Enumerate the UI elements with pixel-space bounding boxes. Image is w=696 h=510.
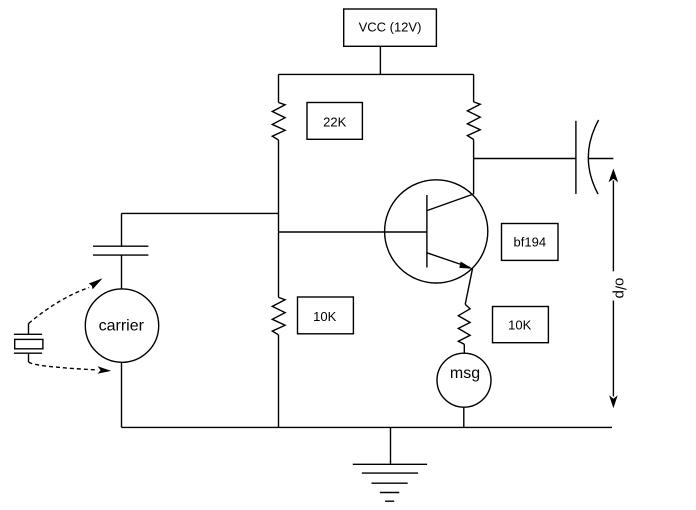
label box 10K (emitter) — [493, 307, 549, 343]
wire msg to ground rail — [463, 407, 465, 427]
wire collector vertical to transistor — [473, 140, 475, 195]
svg-text:10K: 10K — [508, 318, 531, 333]
svg-text:o/p: o/p — [612, 278, 629, 299]
capacitor carrier coupling top plate — [93, 245, 148, 247]
resistor 22K zigzag — [272, 103, 285, 141]
transistor Q1 emitter lead with arrow — [427, 253, 473, 269]
wire base connection — [279, 231, 427, 233]
wire output stub after capacitor — [588, 158, 613, 160]
resistor 10K (emitter) zigzag — [458, 304, 470, 344]
crystal bottom plate — [14, 352, 42, 354]
wire right branch top lead — [473, 74, 475, 102]
label box 10K (left) — [298, 297, 354, 334]
wire carrier to ground rail — [121, 362, 123, 427]
label box 22K — [307, 103, 362, 140]
dashed pointer lower (crystal to carrier) — [29, 362, 112, 374]
transistor Q1 circle — [385, 180, 488, 283]
svg-text:22K: 22K — [323, 115, 346, 130]
resistor collector (right top) zigzag — [467, 102, 480, 140]
wire collector output horizontal — [474, 158, 576, 160]
svg-text:msg: msg — [450, 365, 480, 382]
transistor Q1 base bar — [426, 195, 428, 268]
wire bottom ground rail — [122, 426, 613, 428]
capacitor output coupling straight plate — [575, 121, 577, 194]
transistor Q1 collector lead — [427, 194, 474, 211]
svg-text:VCC (12V): VCC (12V) — [359, 20, 422, 35]
capacitor carrier coupling bottom plate — [93, 254, 148, 256]
power VCC (12V) supply box — [344, 9, 437, 46]
wire emitter to resistor — [465, 269, 472, 305]
source carrier circle — [85, 289, 158, 362]
resistor 10K (lower left) zigzag — [272, 297, 285, 335]
crystal bottom lead — [28, 353, 30, 362]
svg-text:bf194: bf194 — [514, 235, 547, 250]
wire capacitor to carrier circle — [121, 255, 123, 289]
source msg circle — [437, 353, 491, 407]
svg-text:10K: 10K — [313, 309, 336, 324]
wire carrier branch horizontal — [122, 212, 279, 214]
wire VCC stem — [379, 46, 381, 74]
node o/p measurement arrow (double headed) — [609, 169, 619, 409]
wire resistor to msg source — [463, 344, 465, 353]
dashed pointer upper (crystal to carrier) — [29, 278, 103, 323]
ground symbol — [353, 464, 427, 501]
crystal body — [15, 339, 43, 348]
wire left vertical between 22K and lower 10K (base divider node) — [278, 140, 280, 297]
wire top supply rail — [279, 73, 474, 75]
crystal top plate — [14, 333, 42, 335]
wire left branch top lead — [278, 74, 280, 102]
wire left branch bottom lead — [278, 335, 280, 428]
label box bf194 — [502, 224, 559, 261]
wire carrier branch vertical to capacitor — [121, 213, 123, 246]
svg-text:carrier: carrier — [99, 318, 145, 335]
crystal top lead — [28, 324, 30, 335]
wire ground stem — [390, 427, 392, 464]
capacitor output coupling curved plate — [588, 120, 598, 194]
